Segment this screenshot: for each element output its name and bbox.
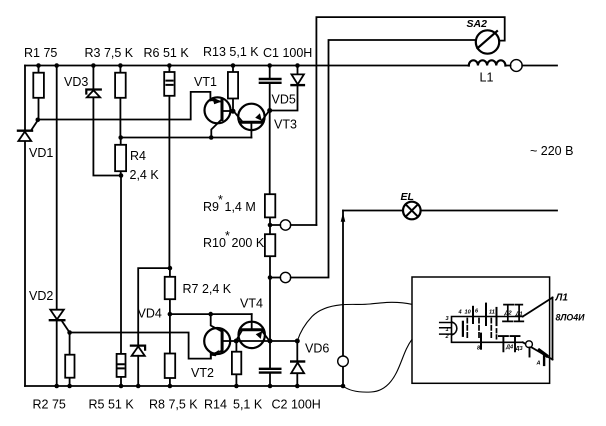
resistor R6 (2W marks) xyxy=(164,66,174,269)
CRT deflection plate D1 xyxy=(515,305,524,322)
CRT heater loop xyxy=(453,322,457,334)
svg-text:R1 75: R1 75 xyxy=(24,46,57,60)
CRT dashed box xyxy=(412,277,550,383)
svg-text:VT3: VT3 xyxy=(274,118,297,132)
wire squiggle lower (to CRT cathode) xyxy=(343,339,412,392)
CRT deflection plate D3 xyxy=(511,336,520,351)
node VT2 collector on R7-VT4 wire xyxy=(208,312,213,317)
svg-text:L1: L1 xyxy=(480,71,494,85)
transistor VT3 xyxy=(234,104,269,138)
svg-text:VD4: VD4 xyxy=(138,307,162,321)
svg-text:VD2: VD2 xyxy=(29,289,53,303)
svg-text:5,1 K: 5,1 K xyxy=(233,398,263,412)
diode VD5 xyxy=(270,66,304,111)
CRT electrode pin11 xyxy=(496,308,498,325)
resistor R5 (2W marks) xyxy=(117,354,126,386)
node R4 bottom / VD3 / R5 xyxy=(119,173,124,178)
CRT pin labels xyxy=(445,309,541,367)
svg-text:R10: R10 xyxy=(203,236,226,250)
svg-text:R14: R14 xyxy=(204,398,227,412)
CRT dashed electrode 4 xyxy=(496,329,498,341)
svg-text:200 K: 200 K xyxy=(232,236,265,250)
svg-text:VT4: VT4 xyxy=(240,297,263,311)
wire EL branch vertical xyxy=(342,211,344,387)
resistor R3 xyxy=(115,66,126,138)
svg-text:R4: R4 xyxy=(130,149,146,163)
svg-text:R3 7,5 K: R3 7,5 K xyxy=(85,46,134,60)
CRT deflection plate D4 xyxy=(499,336,508,351)
svg-text:R6 51 K: R6 51 K xyxy=(144,46,190,60)
svg-text:C1 100H: C1 100H xyxy=(263,46,312,60)
svg-text:VD6: VD6 xyxy=(305,342,329,356)
resistor R10 xyxy=(265,225,275,278)
svg-text:R2 75: R2 75 xyxy=(33,398,66,412)
wire left rail xyxy=(24,66,26,387)
node R1/VD1 gate xyxy=(36,118,41,123)
node VD6 top / CRT lead xyxy=(295,339,300,344)
svg-text:VT1: VT1 xyxy=(194,75,217,89)
svg-text:VD5: VD5 xyxy=(272,93,296,107)
wire R4 to R5 xyxy=(120,176,122,354)
CRT electrode 8 lower xyxy=(480,334,482,349)
wire squiggle upper (to CRT grid) xyxy=(297,302,412,341)
CRT electrode tall xyxy=(485,304,487,325)
resistor R2 xyxy=(65,333,74,387)
wire V1 : to SA2 top path xyxy=(316,17,504,225)
svg-text:R8 7,5 K: R8 7,5 K xyxy=(149,398,198,412)
node VT1 collector on wire B xyxy=(209,135,214,140)
node R6/R7/VD4 xyxy=(168,266,173,271)
resistor R7 xyxy=(165,268,176,314)
inductor L1 xyxy=(469,60,506,65)
node VT1 base / R13 / VT3 collector xyxy=(231,109,236,114)
resistor R14 xyxy=(232,341,241,386)
node R10 bottom xyxy=(268,275,273,280)
transistor VT1 xyxy=(205,97,233,137)
CRT grid dashed electrode 2 xyxy=(478,319,480,340)
wire R7 to VT2 collector and VT4 base xyxy=(170,313,252,315)
CRT L1 tube neck xyxy=(452,317,523,343)
svg-text:8ЛО4И: 8ЛО4И xyxy=(556,313,586,323)
svg-text:11: 11 xyxy=(489,310,495,316)
CRT anode bar A xyxy=(543,354,545,365)
node R9/R10 xyxy=(268,223,273,228)
wire R10 node down to VT4 emitter node xyxy=(269,278,271,342)
CRT grid dashed electrode 1 xyxy=(466,319,468,340)
CRT deflection plate D2 xyxy=(503,305,514,322)
node VT4 emitter / C2 / R10 line xyxy=(268,339,273,344)
node R3/R4/wireB xyxy=(118,135,123,140)
wire VD2 gate to VT2 emitter xyxy=(70,333,211,359)
svg-text:SA2: SA2 xyxy=(467,18,488,30)
resistor R13 xyxy=(228,66,238,112)
svg-text:*: * xyxy=(218,193,223,207)
wire base node to emitter node xyxy=(236,340,270,342)
node R7 bottom xyxy=(168,312,173,317)
node C1/VD5/VT3 emitter/R9 xyxy=(267,108,272,113)
transistor VT2 xyxy=(204,314,234,359)
CRT grid dashed electrode 3 xyxy=(490,319,492,340)
svg-text:VT2: VT2 xyxy=(191,366,214,380)
svg-text:R13 5,1 K: R13 5,1 K xyxy=(203,45,259,59)
resistor R8 xyxy=(165,314,176,386)
wire B : R4 top to VT1 collector and VT3 base xyxy=(121,137,252,139)
svg-text:*: * xyxy=(225,229,230,243)
svg-text:R5 51 K: R5 51 K xyxy=(89,398,135,412)
svg-text:VD3: VD3 xyxy=(64,75,88,89)
zener diode VD4 xyxy=(131,346,145,386)
thyristor VD2 xyxy=(50,310,70,333)
wire emitter node to VD6 node xyxy=(270,340,297,342)
svg-text:А: А xyxy=(536,361,541,367)
bottom bus wire xyxy=(25,385,343,387)
zener diode VD3 xyxy=(86,66,121,176)
bus junction dots bottom xyxy=(54,384,345,389)
terminal circle upper xyxy=(270,220,316,230)
terminal circle on mains wire xyxy=(510,60,522,72)
capacitor C1 xyxy=(260,66,281,111)
CRT anode contact circle on funnel xyxy=(526,341,533,348)
wire A : node to VT1 emitter xyxy=(38,92,211,120)
svg-text:2,4 K: 2,4 K xyxy=(130,168,160,182)
wire VD2 branch rail xyxy=(56,66,58,387)
connector arrow on EL branch xyxy=(341,213,346,222)
svg-text:Д3: Д3 xyxy=(515,346,524,352)
svg-text:EL: EL xyxy=(401,191,414,203)
resistor R1 xyxy=(33,66,44,120)
terminal circle on EL branch xyxy=(338,356,349,367)
CRT anode contact lead xyxy=(529,348,531,357)
thyristor VD1 xyxy=(18,120,38,141)
svg-text:C2 100H: C2 100H xyxy=(272,398,321,412)
switch SA2 xyxy=(476,30,499,53)
svg-text:~ 220 B: ~ 220 B xyxy=(530,144,573,158)
wire EL lamp line xyxy=(343,210,557,212)
wire to VD4 branch xyxy=(138,268,170,346)
lamp EL xyxy=(403,202,421,220)
svg-text:R7 2,4 K: R7 2,4 K xyxy=(183,282,232,296)
svg-text:Д2: Д2 xyxy=(504,311,513,317)
terminal circle lower xyxy=(270,272,291,282)
svg-text:Л1: Л1 xyxy=(555,293,569,304)
svg-text:10: 10 xyxy=(465,310,472,316)
node VD2 gate / R2 xyxy=(67,330,72,335)
svg-text:Д4: Д4 xyxy=(505,345,514,351)
transistor VT4 xyxy=(236,314,269,348)
CRT electrode pin6 upper xyxy=(472,307,474,323)
CRT anode blob on funnel xyxy=(539,350,546,355)
wire top bus / mains upper wire xyxy=(25,65,557,67)
bus junction dots top xyxy=(36,63,300,68)
svg-text:VD1: VD1 xyxy=(29,146,53,160)
svg-text:1,4 M: 1,4 M xyxy=(225,200,256,214)
capacitor C2 xyxy=(260,341,280,386)
svg-text:1: 1 xyxy=(446,327,449,333)
svg-text:Д1: Д1 xyxy=(515,312,523,318)
node VT2 base / VT4 collector / R14 xyxy=(234,339,239,344)
CRT heater leads pins 3,1,2 xyxy=(440,323,453,335)
wire SA2 left / V2 down to lower terminal xyxy=(291,40,476,278)
resistor R9 xyxy=(265,111,275,226)
svg-text:R9: R9 xyxy=(203,200,219,214)
resistor R4 xyxy=(115,138,126,176)
CRT funnel and screen xyxy=(523,298,553,360)
diode VD6 xyxy=(291,341,304,386)
CRT cathode bar xyxy=(462,322,464,336)
